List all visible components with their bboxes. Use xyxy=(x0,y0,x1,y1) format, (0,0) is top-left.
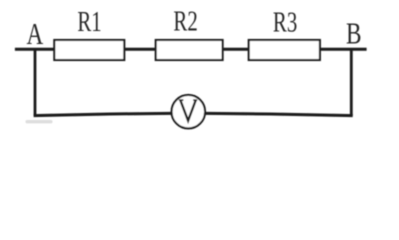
wire: top horizontal bus from A to B xyxy=(15,48,367,51)
wire: left vertical from node A down to bottom bus xyxy=(34,49,37,116)
voltmeter U1 body xyxy=(172,95,206,129)
resistor R2 xyxy=(156,40,223,60)
svg-text:B: B xyxy=(346,17,362,51)
svg-text:R2: R2 xyxy=(173,5,197,37)
svg-text:R1: R1 xyxy=(77,6,101,38)
voltmeter V symbol label xyxy=(179,100,197,121)
resistor R1 xyxy=(54,40,124,60)
svg-text:A: A xyxy=(27,17,44,51)
resistor R3 xyxy=(249,40,320,60)
svg-text:R3: R3 xyxy=(273,6,297,38)
wire: bottom horizontal bus through voltmeter xyxy=(34,113,353,115)
wire: right vertical from node B down to bottom bus xyxy=(350,49,353,116)
